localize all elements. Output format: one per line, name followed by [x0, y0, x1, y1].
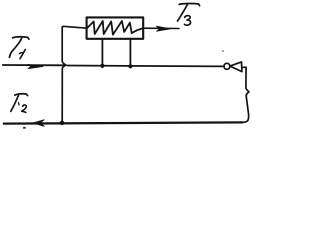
label T1	[9, 37, 29, 59]
heater U1: heating element zigzag	[87, 21, 143, 35]
wire: heater outlet to T3	[143, 27, 179, 29]
speck: scan noise under T2 return line	[23, 127, 26, 129]
wire: heater leg 1	[101, 39, 103, 67]
speck: scan noise near valve	[222, 50, 224, 52]
wire: top supply line right segment to valve	[67, 65, 224, 68]
wire: valve outlet stub	[242, 66, 246, 68]
arrow: flow direction on T2 line	[33, 120, 44, 127]
label T2	[11, 94, 28, 113]
arrow: flow direction to T3	[156, 26, 170, 31]
valve: circle	[224, 63, 230, 69]
wire: top supply line left segment (T1 inlet)	[3, 64, 64, 66]
valve: nozzle triangle	[230, 62, 242, 72]
wire: riser from heater inlet crossing supply line (hop) down to return line	[62, 26, 87, 121]
heater U1: box	[87, 17, 144, 38]
node: junction dot leg 2	[128, 64, 132, 68]
label T3	[178, 4, 200, 26]
node: junction dot riser/return	[60, 121, 65, 126]
node: junction dot leg 1	[100, 64, 104, 68]
arrow: flow direction on T1 line	[28, 64, 43, 68]
wire: heater leg 2	[129, 39, 131, 68]
wire: bottom return line	[4, 122, 243, 123]
wire: right downcomer with kink, corner to return line	[243, 67, 250, 122]
